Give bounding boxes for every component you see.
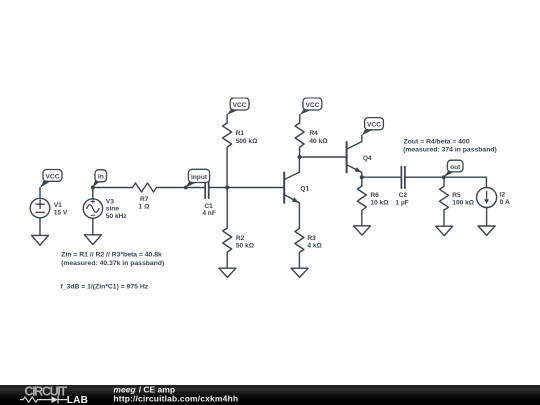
node base junction dot <box>225 185 229 189</box>
node collector junction dot <box>298 155 302 159</box>
label I2 0 A <box>500 192 510 207</box>
svg-text:input: input <box>191 174 208 181</box>
svg-text:in: in <box>98 174 104 181</box>
wire Q4 emitter <box>361 172 363 177</box>
ground (R2) <box>219 268 236 277</box>
ground (V3) <box>84 235 101 245</box>
wire VCC to R4 <box>299 115 301 124</box>
logo LAB text <box>67 395 88 405</box>
VCC flag (Q4) <box>362 118 383 136</box>
wire R2 to ground <box>226 252 228 268</box>
wire I2 to ground <box>486 208 488 227</box>
node emitter junction dot <box>360 175 364 179</box>
svg-text:V3: V3 <box>106 198 114 205</box>
resistor R7 <box>133 183 157 192</box>
resistor R1 <box>223 123 232 147</box>
wire Q1 collector <box>298 157 300 172</box>
VCC flag (V1) <box>40 170 62 188</box>
svg-text:LAB: LAB <box>67 395 88 405</box>
label R5 100 kohm <box>452 192 475 207</box>
svg-text:R6: R6 <box>370 192 379 199</box>
resistor R3 <box>295 229 304 253</box>
svg-text:(measured: 40.37k in passband): (measured: 40.37k in passband) <box>61 260 164 267</box>
label Q4 <box>363 155 372 162</box>
wire R1 to node <box>226 147 228 187</box>
node out dot <box>442 175 446 179</box>
ground (R5) <box>436 226 453 235</box>
label R3 4 kohm <box>307 235 322 249</box>
footer url <box>113 393 238 403</box>
label R4 40 kohm <box>309 130 328 145</box>
current source I2 <box>477 188 497 208</box>
label C1 4 nF <box>202 203 216 217</box>
wire base node to Q1 <box>227 187 284 189</box>
wire VCC to R1 <box>226 115 228 124</box>
annotation f_3dB <box>61 284 149 291</box>
svg-text:VCC: VCC <box>367 122 381 129</box>
transistor Q1 <box>284 172 299 203</box>
svg-text:Q1: Q1 <box>300 186 309 193</box>
wire emitter node to C2 <box>362 176 402 178</box>
input flag <box>186 169 210 187</box>
VCC flag (R4) <box>300 98 322 115</box>
svg-text:15 V: 15 V <box>54 210 68 217</box>
svg-text:R7: R7 <box>140 196 149 203</box>
transistor Q4 <box>347 142 362 173</box>
annotation Zin <box>61 251 164 266</box>
wire V1 top <box>39 188 41 199</box>
annotation Zout <box>403 138 497 153</box>
svg-text:Zout = R4/beta = 400: Zout = R4/beta = 400 <box>404 138 470 145</box>
label V1 15 V <box>54 202 68 216</box>
footer bar <box>0 385 540 405</box>
wire node to R2 <box>226 188 228 229</box>
svg-text:f_3dB = 1/(Zin*C1) = 975 Hz: f_3dB = 1/(Zin*C1) = 975 Hz <box>61 284 149 291</box>
svg-text:1 Ω: 1 Ω <box>139 203 150 210</box>
svg-text:sine: sine <box>106 206 120 213</box>
svg-text:R5: R5 <box>452 192 461 199</box>
wire R7 to C1 <box>157 187 206 189</box>
ground (I2) <box>478 226 495 235</box>
svg-text:CIRCUIT: CIRCUIT <box>24 385 67 399</box>
wire collector node to Q4 base <box>300 156 347 158</box>
wire V1 bottom <box>39 218 41 236</box>
label Q1 <box>300 186 309 193</box>
label R6 10 kohm <box>370 192 389 207</box>
wire Q1 emitter <box>298 203 300 229</box>
node in dot <box>91 185 95 189</box>
svg-text:I2: I2 <box>500 192 506 199</box>
resistor R5 <box>440 186 449 210</box>
wire in to R7 <box>93 187 133 189</box>
wire C2 to out node <box>405 176 444 178</box>
voltage source V1 <box>30 198 50 218</box>
node input dot <box>184 186 188 190</box>
svg-text:50 kHz: 50 kHz <box>106 213 128 220</box>
svg-text:VCC: VCC <box>46 173 60 180</box>
footer title meeg / CE amp <box>113 384 175 394</box>
wire out node to R5 <box>443 177 445 186</box>
wire V3 bottom <box>92 218 94 235</box>
svg-text:0 A: 0 A <box>500 199 510 206</box>
svg-text:R2: R2 <box>236 235 245 242</box>
resistor R4 <box>295 123 304 147</box>
resistor R6 <box>357 186 366 211</box>
svg-text:R3: R3 <box>307 235 316 242</box>
capacitor C1 <box>205 177 209 198</box>
svg-text:VCC: VCC <box>233 102 247 109</box>
VCC flag (R1) <box>227 98 249 115</box>
capacitor C2 <box>401 167 405 189</box>
label V3 sine 50 kHz <box>106 198 128 220</box>
svg-text:1 µF: 1 µF <box>395 199 408 206</box>
svg-text:40 kΩ: 40 kΩ <box>309 138 328 145</box>
wire emitter node to R6 <box>361 177 363 186</box>
wire C1 to base node <box>209 187 228 189</box>
logo resistor diode graphic <box>21 396 67 403</box>
label R7 1 ohm <box>139 196 150 211</box>
svg-text:4 kΩ: 4 kΩ <box>307 242 322 249</box>
wire R4 to collector node <box>299 147 301 157</box>
svg-text:(measured: 374 in passband): (measured: 374 in passband) <box>403 147 497 154</box>
label C2 1 uF <box>395 192 408 207</box>
in flag <box>93 170 107 188</box>
wire Q4 collector <box>361 135 363 141</box>
wire R5 to ground <box>443 210 445 226</box>
wire R3 to ground <box>298 252 300 268</box>
svg-text:4 nF: 4 nF <box>202 210 216 217</box>
wire V3 top <box>92 188 94 199</box>
wire out node to I2 <box>444 177 487 187</box>
svg-text:Zin = R1 // R2 // R3*beta = 40: Zin = R1 // R2 // R3*beta = 40.8k <box>61 251 162 258</box>
label R1 500 kohm <box>236 130 259 145</box>
svg-text:http://circuitlab.com/cxkm4hh: http://circuitlab.com/cxkm4hh <box>113 393 238 403</box>
svg-text:C1: C1 <box>204 203 213 210</box>
logo CIRCUIT text <box>24 385 67 399</box>
svg-text:100 kΩ: 100 kΩ <box>452 200 475 207</box>
resistor R2 <box>223 228 232 252</box>
svg-text:50 kΩ: 50 kΩ <box>236 242 255 249</box>
svg-text:10 kΩ: 10 kΩ <box>370 199 389 206</box>
label R2 50 kohm <box>236 235 255 249</box>
voltage source V3 sine <box>83 199 102 218</box>
ground (R3) <box>291 268 308 277</box>
svg-text:Q4: Q4 <box>363 155 372 162</box>
out flag <box>444 160 463 177</box>
ground (V1) <box>32 235 49 245</box>
ground (R6) <box>354 226 371 235</box>
svg-text:500 kΩ: 500 kΩ <box>236 138 259 145</box>
svg-text:out: out <box>450 164 461 171</box>
svg-text:VCC: VCC <box>305 102 319 109</box>
svg-text:V1: V1 <box>54 202 62 209</box>
svg-text:R1: R1 <box>236 130 245 137</box>
wire R6 to ground <box>361 211 363 226</box>
svg-text:C2: C2 <box>399 192 408 199</box>
svg-text:R4: R4 <box>309 130 318 137</box>
